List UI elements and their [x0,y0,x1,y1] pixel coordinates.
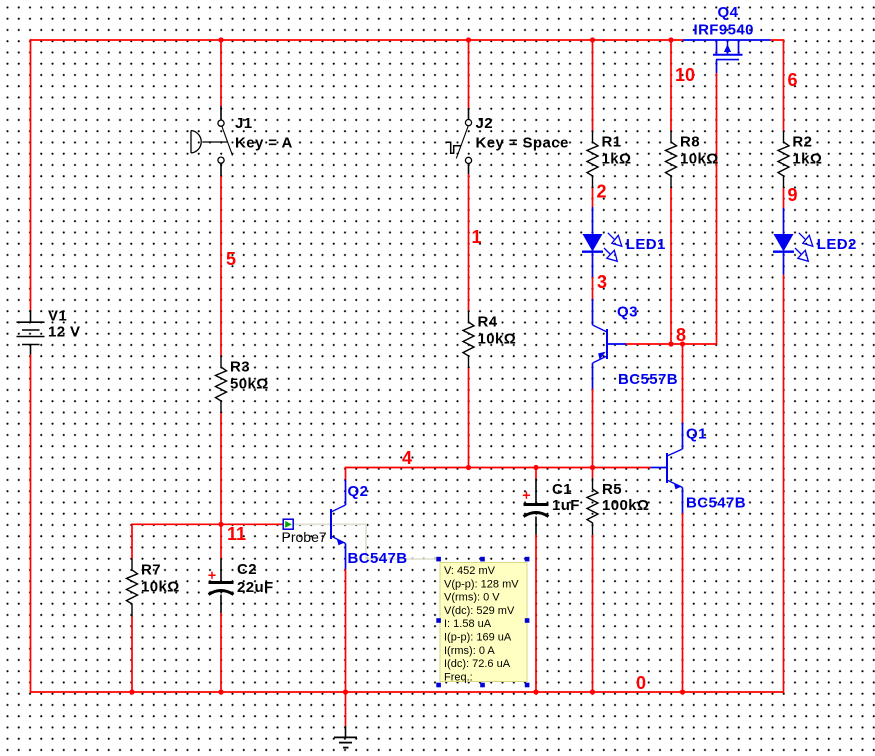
svg-text:Q1: Q1 [686,425,707,442]
handle bottom-right [525,683,530,688]
probe Probe7 [283,519,293,529]
node 8 right [680,341,685,346]
LED LED2 [773,208,813,275]
resistor R8 [666,131,677,189]
svg-text:1uF: 1uF [552,497,580,514]
svg-text:Key = A: Key = A [235,134,293,151]
wire R3 to node 11 to C2 [220,413,222,559]
wire net 5 J1 to R3 [220,176,222,356]
switch J1 [191,106,233,176]
resistor R7 [127,559,138,617]
wire C2 bottom [220,613,222,692]
svg-text:5: 5 [226,249,236,269]
node R7 bottom [129,689,134,694]
svg-text:9: 9 [788,185,798,205]
svg-text:11: 11 [227,524,246,544]
wire net 3 LED1 to Q3 collector [592,277,594,300]
wire Q1 emitter down [682,513,684,692]
wire net 11 horizontal [132,523,283,525]
node C2 bottom [218,689,223,694]
handle top-left [436,557,441,562]
node 4 at J2 [466,465,471,470]
wire C1 bottom [535,535,537,693]
resistor R5 [587,478,598,535]
svg-text:BC547B: BC547B [348,550,408,567]
wire LED2 to bottom right corner [783,275,785,693]
handle top-mid [480,557,485,562]
svg-text:10kΩ: 10kΩ [141,578,180,595]
probe readout box [436,557,529,688]
wire net 2 R1 to LED1 [592,188,594,207]
svg-text:V(dc): 529 mV: V(dc): 529 mV [444,605,515,617]
wire R4 to net 4 [468,368,470,468]
svg-text:BC557B: BC557B [618,371,678,388]
svg-text:12 V: 12 V [48,324,80,341]
node J1 top [218,37,223,42]
resistor R4 [463,311,474,369]
svg-text:R5: R5 [602,481,622,498]
svg-text:50kΩ: 50kΩ [230,375,269,392]
wire R5 bottom [592,535,594,692]
wire Q1 collector up to node 8 [682,344,684,423]
svg-text:10kΩ: 10kΩ [680,150,719,167]
svg-text:V1: V1 [48,307,67,324]
svg-text:V(rms): 0 V: V(rms): 0 V [444,592,500,604]
handle mid-right [525,618,530,623]
wire R7 bottom [131,617,133,693]
handle mid-left [436,618,441,623]
svg-text:Key = Space: Key = Space [476,134,569,151]
wire bottom rail [30,691,784,693]
svg-text:10kΩ: 10kΩ [478,330,517,347]
capacitor C2 [208,559,233,614]
svg-text:8: 8 [676,325,686,345]
wire left rail upper [30,39,32,310]
svg-text:R1: R1 [602,134,622,151]
svg-text:Freq.:: Freq.: [444,671,473,683]
resistor R2 [778,131,789,189]
node R5 bottom [590,689,595,694]
transistor Q1 NPN [651,423,683,513]
svg-text:Q4: Q4 [718,4,739,21]
wire R1 top [592,40,594,131]
svg-text:C2: C2 [237,561,257,578]
svg-text:1kΩ: 1kΩ [792,150,822,167]
svg-text:C1: C1 [552,481,572,498]
wire ground stub [345,692,347,726]
node 4 at R5 [590,465,595,470]
wire J2 top stub [468,40,470,108]
wire R5 top stub [592,468,594,479]
handle bottom-mid [480,683,485,688]
node 11 [218,522,223,527]
probe leader line [294,524,439,559]
svg-text:V(p-p): 128 mV: V(p-p): 128 mV [444,578,519,590]
wire net 4 horizontal [346,468,651,481]
svg-text:3: 3 [597,272,607,292]
wire net 1 J2 to R4 [468,174,470,311]
svg-text:I: 1.58 uA: I: 1.58 uA [444,618,492,630]
handle top-right [525,557,530,562]
node J2 top [466,37,471,42]
wire J1 top stub [220,40,222,106]
node R8 top [668,37,673,42]
wire top rail left [30,39,683,41]
resistor R1 [587,131,598,189]
wire Q2 emitter to bottom rail [345,569,347,692]
node C1 bottom [533,689,538,694]
LED LED1 [582,207,622,277]
resistor R3 [216,356,227,414]
switch J2 [446,108,472,174]
ground [334,726,357,748]
svg-text:2: 2 [597,182,607,202]
svg-text:Q2: Q2 [348,483,369,500]
svg-text:6: 6 [788,70,798,90]
svg-text:R7: R7 [141,562,161,579]
wire R8 top [670,40,672,131]
svg-text:BC547B: BC547B [686,494,746,511]
node 8 left [668,341,673,346]
svg-text:J1: J1 [235,115,253,132]
svg-text:J2: J2 [476,115,494,132]
wire net 10 R8 to node 8 [670,188,672,345]
svg-text:R8: R8 [680,134,700,151]
wire Q4 gate down [716,73,718,345]
transistor Q2 NPN [331,480,346,570]
wire C1 top stub [535,468,537,479]
svg-text:100kΩ: 100kΩ [602,497,649,514]
wire Q3 emitter to net 4 [592,389,594,468]
svg-text:IRF9540: IRF9540 [694,21,754,38]
handle bottom-left [436,683,441,688]
battery V1 [17,310,45,355]
wire left rail lower [30,355,32,693]
node ground [343,689,348,694]
svg-text:I(p-p): 169 uA: I(p-p): 169 uA [444,632,512,644]
svg-text:R3: R3 [230,359,250,376]
svg-text:10: 10 [675,65,695,85]
svg-text:0: 0 [636,673,646,693]
node Q1 emitter bottom [680,689,685,694]
svg-text:R4: R4 [478,314,498,331]
node 4 at C1 [533,465,538,470]
svg-text:1kΩ: 1kΩ [602,150,632,167]
svg-text:Probe7: Probe7 [282,529,327,545]
wire net 8 horizontal [626,343,717,345]
node R1 top [590,37,595,42]
wire R7 branch [131,524,133,559]
svg-text:1: 1 [472,227,482,247]
svg-text:I(rms): 0 A: I(rms): 0 A [444,645,495,657]
svg-text:4: 4 [402,448,412,468]
svg-text:22uF: 22uF [237,579,274,596]
svg-text:V: 452 mV: V: 452 mV [444,565,496,577]
op... transistor Q3 PNP [593,299,627,389]
capacitor C1 [523,479,549,535]
wire top rail right + right column top [771,40,784,131]
svg-text:LED1: LED1 [626,236,666,253]
svg-text:R2: R2 [792,134,812,151]
svg-text:LED2: LED2 [817,236,857,253]
svg-text:I(dc): 72.6 uA: I(dc): 72.6 uA [444,658,511,670]
svg-text:Q3: Q3 [617,303,638,320]
mosfet Q4 IRF9540 [683,40,771,73]
wire net 6 R2 to LED2 [783,188,785,208]
